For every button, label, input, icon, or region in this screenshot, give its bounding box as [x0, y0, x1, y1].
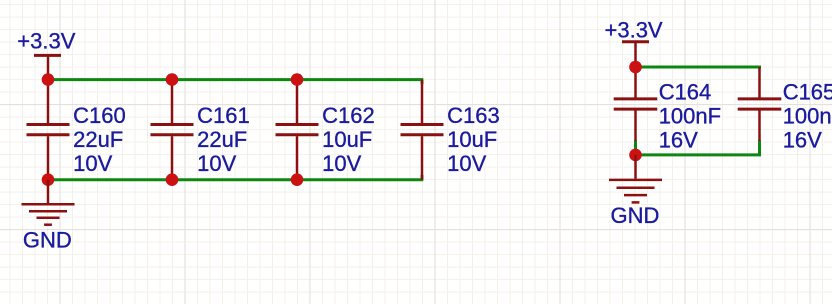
ground symbol (right)	[609, 155, 662, 203]
designator C165	[783, 80, 832, 105]
wire bottom bus (left)	[47, 178, 424, 181]
net label GND (right)	[611, 203, 660, 228]
net label +3.3V (left)	[17, 29, 75, 54]
svg-text:C161: C161	[197, 103, 250, 128]
svg-text:100nF: 100nF	[783, 104, 832, 129]
junction bottom wire at C160	[42, 173, 55, 186]
svg-text:10uF: 10uF	[322, 127, 372, 152]
wire stub bottom (C164)	[634, 140, 637, 155]
net label +3.3V (right)	[605, 18, 663, 43]
svg-text:C165: C165	[783, 80, 832, 105]
ground symbol (left)	[22, 180, 75, 225]
designator C162	[322, 103, 375, 128]
power symbol +3.3V bar (right)	[622, 42, 649, 67]
svg-text:GND: GND	[611, 203, 660, 228]
svg-text:16V: 16V	[783, 128, 822, 153]
value C164 100nF	[659, 104, 721, 129]
junction top wire at C161	[166, 73, 179, 86]
net label GND (left)	[23, 228, 72, 253]
svg-text:10V: 10V	[322, 151, 361, 176]
value C162 10uF	[322, 127, 372, 152]
value C165 100nF	[783, 104, 832, 129]
svg-text:10V: 10V	[447, 151, 486, 176]
svg-text:22uF: 22uF	[73, 127, 123, 152]
capacitor C163	[401, 80, 444, 180]
svg-text:C162: C162	[322, 103, 375, 128]
wire corner stub top (C165)	[758, 67, 761, 69]
svg-text:22uF: 22uF	[197, 127, 247, 152]
svg-text:10uF: 10uF	[447, 127, 497, 152]
power symbol +3.3V bar (left)	[34, 55, 61, 79]
junction bottom (right)	[629, 149, 642, 162]
value C163 10uF	[447, 127, 497, 152]
designator C163	[447, 103, 500, 128]
svg-text:+3.3V: +3.3V	[605, 18, 663, 43]
junction bottom wire at C161	[166, 173, 179, 186]
wire bottom (C164 to C165)	[636, 153, 762, 156]
voltage C162 10V	[322, 151, 361, 176]
value C160 22uF	[73, 127, 123, 152]
capacitor C162	[276, 80, 319, 180]
svg-text:16V: 16V	[659, 128, 698, 153]
svg-text:10V: 10V	[73, 151, 112, 176]
designator C164	[659, 80, 712, 105]
svg-text:100nF: 100nF	[659, 104, 721, 129]
svg-text:C164: C164	[659, 80, 712, 105]
capacitor C164	[614, 67, 658, 141]
capacitor C161	[151, 80, 194, 180]
value C161 22uF	[197, 127, 247, 152]
voltage C160 10V	[73, 151, 112, 176]
wire corner stub top (C163)	[421, 80, 424, 85]
capacitor C160	[27, 80, 70, 180]
designator C160	[73, 103, 126, 128]
junction top wire at C160	[42, 73, 55, 86]
svg-text:+3.3V: +3.3V	[17, 29, 75, 54]
svg-text:C163: C163	[447, 103, 500, 128]
designator C161	[197, 103, 250, 128]
voltage C163 10V	[447, 151, 486, 176]
junction bottom wire at C162	[291, 173, 304, 186]
svg-text:GND: GND	[23, 228, 72, 253]
wire corner stub bottom (C165)	[758, 140, 761, 155]
voltage C161 10V	[197, 151, 236, 176]
junction top wire at C162	[291, 73, 304, 86]
voltage C165 16V	[783, 128, 822, 153]
voltage C164 16V	[659, 128, 698, 153]
capacitor C165	[738, 67, 782, 141]
wire top (C164 to C165)	[636, 66, 762, 69]
wire corner stub bottom (C163)	[421, 175, 424, 180]
junction top (right)	[629, 61, 642, 74]
wire top bus (left)	[47, 78, 424, 81]
svg-text:10V: 10V	[197, 151, 236, 176]
svg-text:C160: C160	[73, 103, 126, 128]
